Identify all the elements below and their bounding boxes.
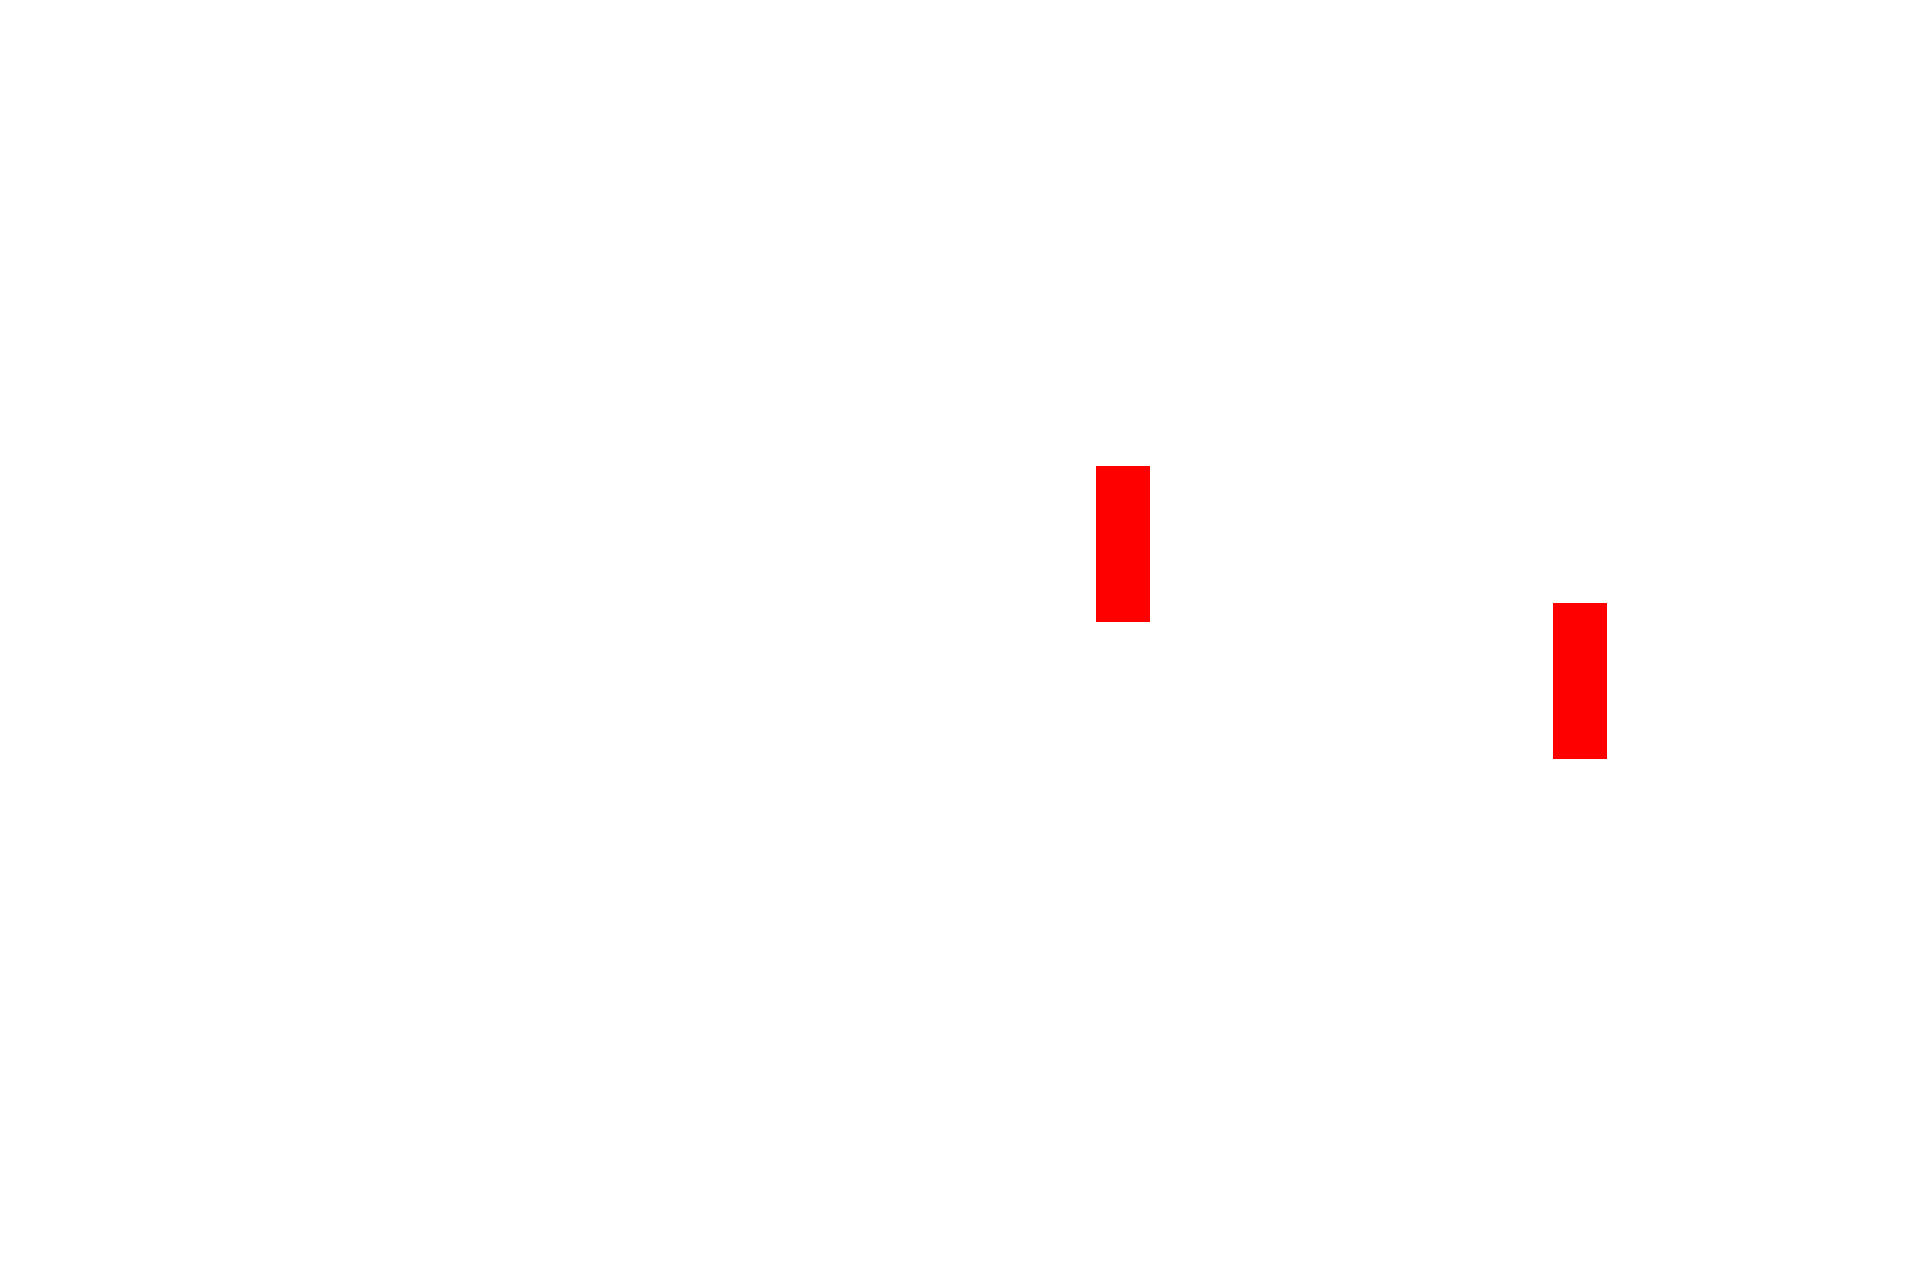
candlestick body 1 (red, down-bar) (1096, 466, 1150, 622)
candlestick body 2 (red, down-bar) (1553, 603, 1607, 759)
